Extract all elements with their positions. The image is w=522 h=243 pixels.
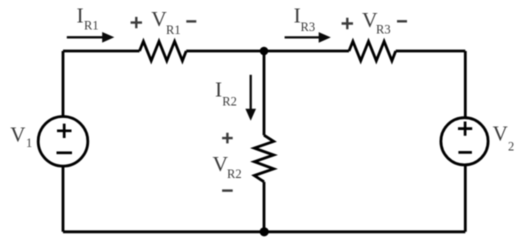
svg-text:R1: R1 <box>84 18 99 32</box>
svg-text:R3: R3 <box>376 23 391 37</box>
svg-text:R1: R1 <box>166 23 181 37</box>
svg-text:I: I <box>77 3 84 27</box>
svg-text:2: 2 <box>508 140 514 154</box>
svg-text:I: I <box>215 77 222 101</box>
svg-text:1: 1 <box>26 136 32 150</box>
svg-text:V: V <box>493 122 508 146</box>
svg-text:R3: R3 <box>301 20 316 34</box>
svg-text:V: V <box>10 123 25 147</box>
svg-text:R2: R2 <box>227 167 242 181</box>
svg-text:R2: R2 <box>222 95 237 109</box>
svg-text:V: V <box>151 7 167 31</box>
